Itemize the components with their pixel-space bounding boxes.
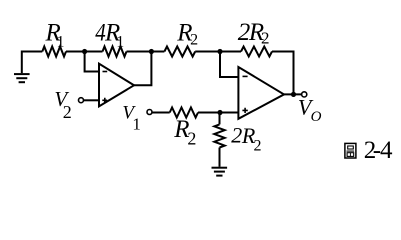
wire: node D to U2 plus input: [220, 112, 238, 114]
terminal V1: [147, 110, 152, 115]
wire: node B to R2 (top): [151, 51, 164, 53]
wire: V2 terminal to U1 non-inverting input: [84, 99, 99, 101]
terminal Vo: [302, 92, 307, 97]
resistor R2 (top): [164, 47, 195, 57]
resistor 4R1: [103, 47, 127, 57]
wire: U2 output to Vo terminal: [284, 93, 301, 95]
wire: node C down to U2 inverting input: [220, 52, 238, 78]
svg-text:1: 1: [116, 33, 124, 50]
resistor R1: [42, 47, 66, 57]
wire: R2 bottom to node D: [198, 112, 220, 114]
ground GND2 (bottom): [212, 168, 228, 176]
resistor 2R2 (top): [241, 47, 272, 57]
caption 圖 2-4 (figure label): [345, 143, 356, 158]
op-amp U2: [238, 67, 284, 119]
U2 minus sign: [243, 75, 248, 77]
svg-text:2: 2: [63, 102, 72, 122]
resistor 2R2 (vertical): [214, 124, 224, 147]
wire: node A down to U1 inverting input: [85, 52, 99, 72]
U1 minus sign: [103, 71, 108, 73]
svg-text:1: 1: [132, 115, 141, 134]
svg-text:2: 2: [254, 138, 262, 155]
svg-text:1: 1: [57, 33, 65, 50]
node A (R1 / 4R1 / U1 inverting junction): [82, 49, 87, 54]
resistor R2 (bottom): [170, 108, 198, 118]
ground GND1 (left): [14, 74, 30, 82]
svg-text:2: 2: [261, 28, 270, 47]
U1 plus sign: [102, 98, 107, 103]
wire: V1 terminal to R2 (bottom): [152, 112, 169, 114]
svg-text:2: 2: [187, 129, 196, 149]
wire: U1 output up to node B: [134, 52, 151, 86]
wire: node C to 2R2 (top): [220, 51, 241, 53]
wire: R1 to node A: [66, 51, 85, 53]
wire: R2 to node C: [195, 51, 220, 53]
op-amp U1: [99, 64, 134, 107]
wire: 2R2 to output node E: [272, 52, 294, 95]
wire: 2R2 vertical to ground: [219, 148, 221, 167]
node D (U2 non-inverting junction): [217, 110, 222, 115]
svg-text:2: 2: [231, 123, 242, 148]
wire: 4R1 to node B: [127, 51, 152, 53]
wire: node A to 4R1: [85, 51, 103, 53]
terminal V2: [79, 98, 84, 103]
wire: node D down to 2R2 vertical: [219, 113, 221, 125]
svg-text:O: O: [311, 109, 322, 125]
svg-text:4: 4: [380, 137, 393, 164]
node B (U1 output / R2 junction): [149, 49, 154, 54]
node C (R2 / 2R2 / U2 inverting junction): [217, 49, 222, 54]
U2 plus sign: [242, 108, 247, 113]
node E (output junction): [291, 92, 296, 97]
wire: ground stem up and right to R1: [22, 52, 43, 74]
svg-text:2: 2: [190, 32, 198, 49]
